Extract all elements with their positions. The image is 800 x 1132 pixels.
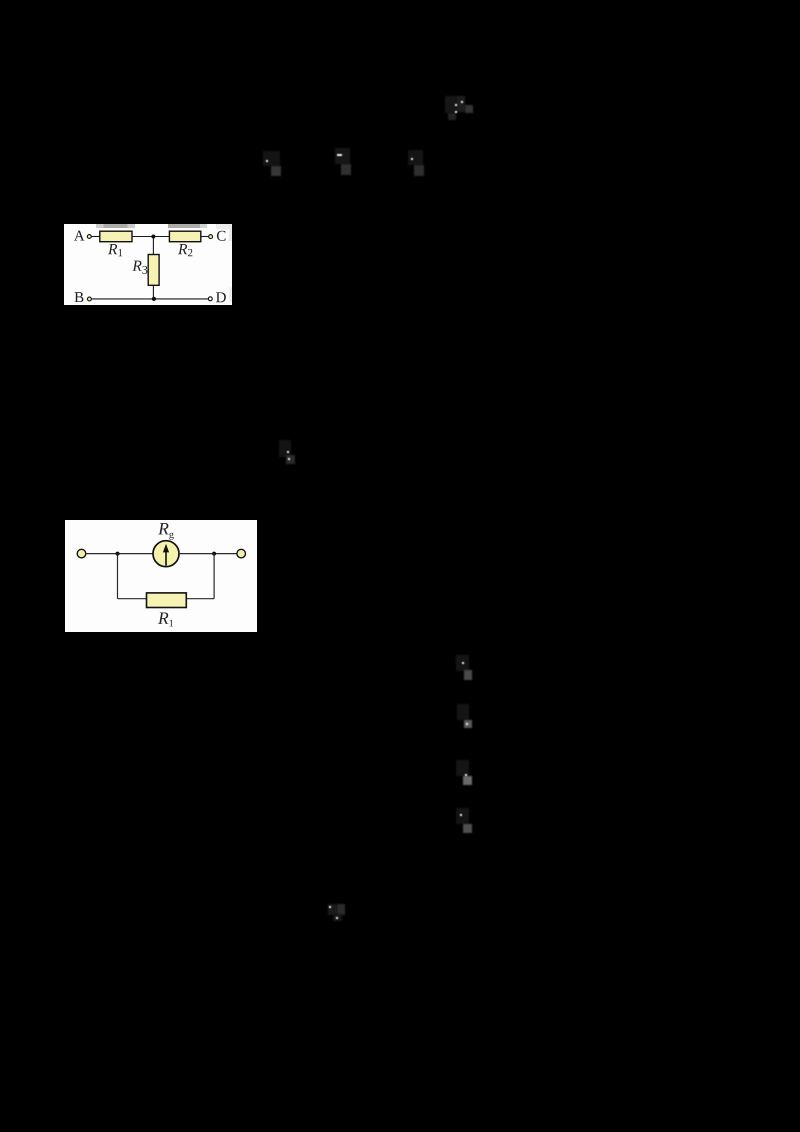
faint text remnant cluster 6 [456, 655, 469, 671]
bottom wire B to D [92, 297, 209, 299]
faint text remnant cluster 10 [328, 904, 337, 915]
circuit 2: galvanometer Rg with shunt resistor R1 [65, 520, 257, 632]
resistor R1 [100, 231, 132, 242]
faint text remnant cluster 4 [445, 96, 456, 113]
bottom wire (shunt branch) [117, 597, 214, 599]
right terminal [236, 549, 245, 558]
faint text remnant cluster 7 [457, 704, 469, 720]
wire R3 to bottom [152, 285, 154, 299]
wire R1 to node [132, 235, 169, 237]
faint text remnant cluster 3 [408, 150, 423, 165]
left junction dot [115, 551, 119, 555]
left vertical wire [116, 553, 118, 598]
right junction dot [212, 551, 216, 555]
node label D [216, 292, 226, 302]
faint text remnant cluster 9 [456, 808, 469, 824]
resistor R3 (vertical) [148, 254, 159, 285]
faint text remnant cluster 8 [456, 760, 469, 776]
terminal A [87, 234, 91, 238]
circuit 1: T-network with R1, R2, R3 between terminals A,B,C,D [64, 224, 232, 305]
resistor R2 [169, 231, 200, 242]
node label B [75, 292, 84, 302]
resistor R1 (shunt) [146, 593, 186, 608]
arrow inside meter [165, 549, 167, 565]
wire A to R1 [91, 235, 99, 237]
junction node dot (bottom) [152, 296, 156, 300]
label R2 [178, 244, 192, 256]
faint text remnant cluster 5 [279, 440, 291, 457]
junction node dot (top) [151, 234, 155, 238]
wire R2 to C [201, 235, 209, 237]
node label A [74, 230, 85, 240]
terminal B [87, 297, 91, 301]
right vertical wire [213, 553, 215, 598]
faint text remnant cluster 1 [263, 151, 280, 166]
white panel background [65, 520, 257, 632]
label R3 [132, 260, 147, 273]
terminal C [209, 234, 213, 238]
label R1 [157, 612, 172, 626]
wire meter to right terminal [179, 552, 237, 554]
galvanometer Rg (circle with arrow) [153, 540, 179, 566]
wire node to R3 [152, 236, 154, 254]
left terminal [77, 549, 86, 558]
white panel background [64, 224, 232, 305]
label Rg [158, 523, 174, 540]
node label C [217, 230, 226, 240]
wire left terminal to meter [85, 552, 152, 554]
gray smudge above R2 [168, 224, 232, 303]
faint text remnant cluster 2 [335, 148, 350, 164]
terminal D [208, 296, 212, 300]
gray smudge above R1 [96, 224, 135, 228]
label R1 [108, 244, 122, 256]
